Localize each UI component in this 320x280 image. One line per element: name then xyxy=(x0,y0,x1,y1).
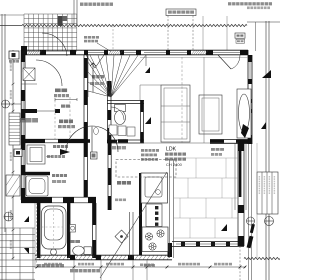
room label2 xyxy=(52,180,56,183)
bottom dimension line xyxy=(35,266,246,268)
entrance door swing inner xyxy=(36,60,62,86)
address text top-right line2 xyxy=(247,7,250,10)
zigzag boundary bottom-right xyxy=(244,257,280,259)
bottom dim tick xyxy=(73,266,76,269)
exterior wall left xyxy=(20,50,22,200)
left note 3 xyxy=(141,158,144,161)
hatched wall segments xyxy=(27,51,208,55)
bath left wall xyxy=(37,203,40,258)
dark grid cell 2 xyxy=(62,16,67,21)
wall washroom right x86 xyxy=(83,143,85,197)
dim extension xyxy=(202,16,204,50)
small note under toilet xyxy=(112,146,116,149)
sliding door black bar xyxy=(239,151,242,197)
left dim tick xyxy=(12,196,15,198)
burner xyxy=(157,230,164,237)
level mark circle 2 xyxy=(4,212,13,221)
dropped ceiling dashed rect xyxy=(116,160,176,178)
left margin line A xyxy=(1,14,3,280)
wood flooring lines xyxy=(174,158,238,238)
schedule text column xyxy=(269,176,270,178)
bath centerline xyxy=(53,206,55,249)
window swing mark xyxy=(95,55,104,68)
window glazing line xyxy=(170,52,187,54)
level mark circle 4 xyxy=(247,217,255,225)
wall post left xyxy=(21,135,25,143)
level mark circle 3 xyxy=(265,217,274,226)
bottom dim tick xyxy=(166,266,169,269)
kitchen small note xyxy=(115,199,118,202)
deck note 1 xyxy=(211,148,215,151)
kitchen label xyxy=(117,181,121,185)
dim extension line xyxy=(167,16,169,52)
extension line xyxy=(255,22,257,51)
window swing mark xyxy=(86,55,95,68)
hall double door swing semicircle xyxy=(66,126,118,152)
left dimension line xyxy=(12,50,14,260)
toilet tank xyxy=(115,105,126,112)
stair label2 xyxy=(90,82,94,85)
dim extension dashed xyxy=(239,246,241,280)
washing machine pan xyxy=(26,176,48,196)
note label small xyxy=(19,118,25,123)
vanity counter xyxy=(27,145,45,164)
grid centerline xyxy=(69,97,71,140)
washroom label xyxy=(53,145,56,148)
stair left edge xyxy=(87,55,89,97)
sliding rail xyxy=(234,143,236,210)
bottom wall step xyxy=(168,243,173,257)
window glazing left xyxy=(22,172,24,188)
counter segment xyxy=(146,204,162,227)
dim extension dashed xyxy=(36,203,38,268)
svg-text:CH 2400: CH 2400 xyxy=(166,162,183,167)
wall post xyxy=(206,50,213,55)
bottom dim tick xyxy=(146,266,149,269)
leader line xyxy=(97,43,111,52)
kitchen walls xyxy=(107,143,109,210)
bottom note text2 xyxy=(144,264,147,267)
level mark circle xyxy=(2,100,10,108)
approach tile grid top-left xyxy=(24,14,77,51)
window glazing line xyxy=(88,52,104,54)
wall post right xyxy=(248,135,252,144)
grid centerline xyxy=(54,100,56,139)
left dim number xyxy=(10,90,12,93)
genkan step line xyxy=(21,83,37,85)
corner post xyxy=(21,46,27,51)
hatch bar xyxy=(247,236,254,249)
toilet cabinet3 xyxy=(127,127,135,136)
burner xyxy=(149,243,156,250)
right fence line B xyxy=(251,144,253,280)
entrance door swing outer xyxy=(42,33,67,56)
left dim tick xyxy=(12,51,15,53)
toilet cabinet2 xyxy=(118,126,126,136)
post box xyxy=(9,51,19,59)
kitchen right edge xyxy=(169,160,171,258)
door handle oval xyxy=(94,127,99,134)
kitchen island xyxy=(141,173,168,203)
right boundary line A xyxy=(265,21,267,280)
wall post xyxy=(108,110,112,120)
wall washroom/washer y173 xyxy=(21,172,50,175)
genkan label xyxy=(55,89,61,93)
burner xyxy=(145,233,152,240)
toilet door swing xyxy=(111,107,124,120)
washlet box xyxy=(70,225,76,233)
stove counter xyxy=(142,227,168,252)
entrance steps xyxy=(9,113,20,145)
wall post xyxy=(21,50,27,55)
vanity basin xyxy=(30,148,42,162)
bottom note text xyxy=(70,269,74,272)
window glazing left xyxy=(22,101,24,113)
wall post bottom xyxy=(238,242,242,247)
exterior wall right (upper room) xyxy=(247,50,249,144)
wall stair/toilet x107 xyxy=(107,81,109,143)
toilet cabinet xyxy=(109,125,117,135)
bottom exterior wall right part xyxy=(172,241,244,243)
wall post bottom xyxy=(211,242,215,247)
right fence line A xyxy=(248,144,250,280)
dim extension line xyxy=(192,16,194,52)
margin line top-left xyxy=(0,14,24,16)
dim extension dashed xyxy=(112,26,114,51)
wall post left xyxy=(21,55,25,62)
bath unit label xyxy=(37,264,41,267)
right boundary line B xyxy=(268,21,270,280)
bath drain circle xyxy=(51,249,57,255)
section arrow A xyxy=(145,67,150,73)
small label box top-right xyxy=(235,33,245,38)
wall post xyxy=(55,109,60,113)
window glazing line xyxy=(213,52,240,54)
window glazing left xyxy=(22,150,24,165)
top dimension label box xyxy=(166,9,196,16)
left dim tick xyxy=(12,257,15,259)
top dimension text xyxy=(168,11,172,14)
room label xyxy=(52,174,55,177)
wall post xyxy=(104,50,108,55)
door leaf line xyxy=(91,127,93,153)
left note 1 xyxy=(141,149,144,152)
title text top-left xyxy=(80,3,84,6)
wall post left xyxy=(21,90,25,101)
section arrow C xyxy=(262,70,271,78)
tall closet door xyxy=(237,89,251,138)
section arrow F xyxy=(24,216,29,222)
wall post left xyxy=(21,143,25,150)
bottom dim tick xyxy=(36,266,39,269)
closet label xyxy=(61,105,65,108)
dim extension xyxy=(73,260,75,280)
wall post xyxy=(84,122,88,143)
wc right wall x94 xyxy=(92,203,94,258)
bottom dim tick xyxy=(244,266,247,269)
wall post xyxy=(136,50,141,55)
top-right boundary line xyxy=(247,21,280,23)
fridge diamond xyxy=(115,230,128,243)
counter front edge xyxy=(129,212,131,258)
left dim tick xyxy=(12,229,15,231)
door flag mark xyxy=(60,149,70,155)
LDK right wall x241 xyxy=(237,143,239,246)
wall post right xyxy=(248,79,252,84)
door swing top-right xyxy=(231,55,240,69)
wall post right xyxy=(248,109,252,113)
LDK area1 xyxy=(165,153,169,156)
exterior wall top xyxy=(21,49,248,51)
address text top-right xyxy=(228,2,231,5)
vanity label xyxy=(47,155,50,158)
AC unit hatch box xyxy=(6,175,20,196)
dim extension xyxy=(34,203,36,268)
bed inner xyxy=(164,88,187,139)
room divider line xyxy=(203,57,205,143)
toilet2 bowl xyxy=(73,246,85,255)
bottom exterior wall left part xyxy=(35,254,172,256)
left dim number xyxy=(10,210,12,213)
wall post xyxy=(84,90,88,105)
staircase winder treads xyxy=(88,55,146,97)
fence line xyxy=(256,143,258,172)
toilet room walls xyxy=(107,100,144,102)
wall post right xyxy=(248,55,252,62)
section arrow G xyxy=(24,248,29,254)
wall post xyxy=(166,50,170,55)
door symbol box xyxy=(91,152,98,159)
wall post xyxy=(70,50,76,55)
interior wall face line xyxy=(140,57,248,59)
dresser outline xyxy=(199,95,222,134)
sliding rail xyxy=(245,143,247,210)
agari-kamachi step line xyxy=(37,110,60,112)
bottom dim tick xyxy=(100,266,103,269)
wall washroom bottom y200 xyxy=(21,196,96,198)
water heater box xyxy=(14,149,22,157)
kitchen left wall xyxy=(139,173,142,255)
grid centerline xyxy=(181,57,183,143)
wall post xyxy=(84,58,88,78)
svg-text:LDK: LDK xyxy=(166,147,177,153)
bottom dim tick xyxy=(209,266,212,269)
wall post xyxy=(40,50,46,55)
wall post left xyxy=(21,165,25,172)
wall post bottom xyxy=(196,242,200,247)
shoe cabinet xyxy=(23,68,35,81)
left margin line B xyxy=(4,14,6,232)
bathtub inner xyxy=(45,209,64,240)
wall post right xyxy=(248,99,252,103)
wall y141 right section xyxy=(210,139,248,141)
left dim tick xyxy=(12,110,15,112)
hall area label xyxy=(58,125,62,128)
wall post xyxy=(84,50,88,55)
small label box 2 xyxy=(236,39,245,43)
LDK boundary line xyxy=(112,142,238,144)
section arrow E xyxy=(221,224,227,231)
bathtub outer xyxy=(42,206,67,249)
left dim number xyxy=(10,120,12,123)
window glazing left xyxy=(22,120,24,135)
dresser inner xyxy=(202,98,219,131)
wall post xyxy=(187,50,191,55)
left dim number xyxy=(10,152,12,155)
sink xyxy=(145,177,162,197)
section arrow B xyxy=(145,117,151,124)
wall post xyxy=(120,50,124,55)
schedule text column xyxy=(259,176,260,178)
toilet bowl xyxy=(115,111,126,125)
LDK area2 xyxy=(165,158,169,161)
section arrow D xyxy=(261,122,266,129)
wall post bottom xyxy=(226,242,230,247)
exterior deck grid bottom-left xyxy=(0,228,35,280)
diagonal leader line xyxy=(100,172,167,278)
dark grid cell xyxy=(58,16,63,26)
small dimension in genkan xyxy=(55,99,77,101)
boundary line straight part xyxy=(0,25,22,27)
dim extension xyxy=(226,16,228,50)
note text small xyxy=(84,36,87,39)
schedule table xyxy=(257,172,278,214)
bed outline xyxy=(161,85,190,142)
wall post xyxy=(108,81,112,96)
bottom dim tick xyxy=(239,266,242,269)
hall label xyxy=(59,120,63,124)
left note 2 xyxy=(141,154,145,157)
bottom dim tick xyxy=(132,266,135,269)
door leaf top-right xyxy=(218,55,231,69)
wall post xyxy=(108,128,112,143)
wall post left xyxy=(21,113,25,120)
window glazing left xyxy=(22,62,24,72)
wall post left xyxy=(21,188,25,200)
genkan area label xyxy=(54,94,57,97)
thin line xyxy=(140,84,161,86)
schedule text column xyxy=(274,176,275,178)
window glazing line xyxy=(144,52,166,54)
wc label xyxy=(70,240,75,243)
stair up arrow xyxy=(90,63,96,92)
left dim number xyxy=(10,240,12,243)
left dim number xyxy=(10,62,12,65)
window glazing bottom xyxy=(176,243,238,245)
left dim tick xyxy=(12,83,15,85)
toilet2 tank xyxy=(84,247,92,255)
left dim tick xyxy=(12,171,15,173)
deck note 2 xyxy=(211,153,214,156)
bath/wc divider wall xyxy=(67,203,70,258)
left dim tick xyxy=(12,139,15,141)
zigzag boundary line top xyxy=(22,24,247,26)
dim extension above xyxy=(73,0,75,26)
wall hall/washroom y141 xyxy=(21,138,84,140)
schedule text column xyxy=(264,176,265,178)
wall post xyxy=(240,50,248,55)
wall post bottom xyxy=(181,242,185,247)
stair label xyxy=(92,75,96,78)
left dim number xyxy=(10,182,12,185)
window glazing line xyxy=(124,52,136,54)
wall genkan/stair x84 xyxy=(83,55,85,143)
left dim tick xyxy=(12,103,15,105)
wall genkan bottom y111 xyxy=(21,109,37,113)
washing machine xyxy=(29,179,45,194)
dim number xyxy=(44,263,47,266)
